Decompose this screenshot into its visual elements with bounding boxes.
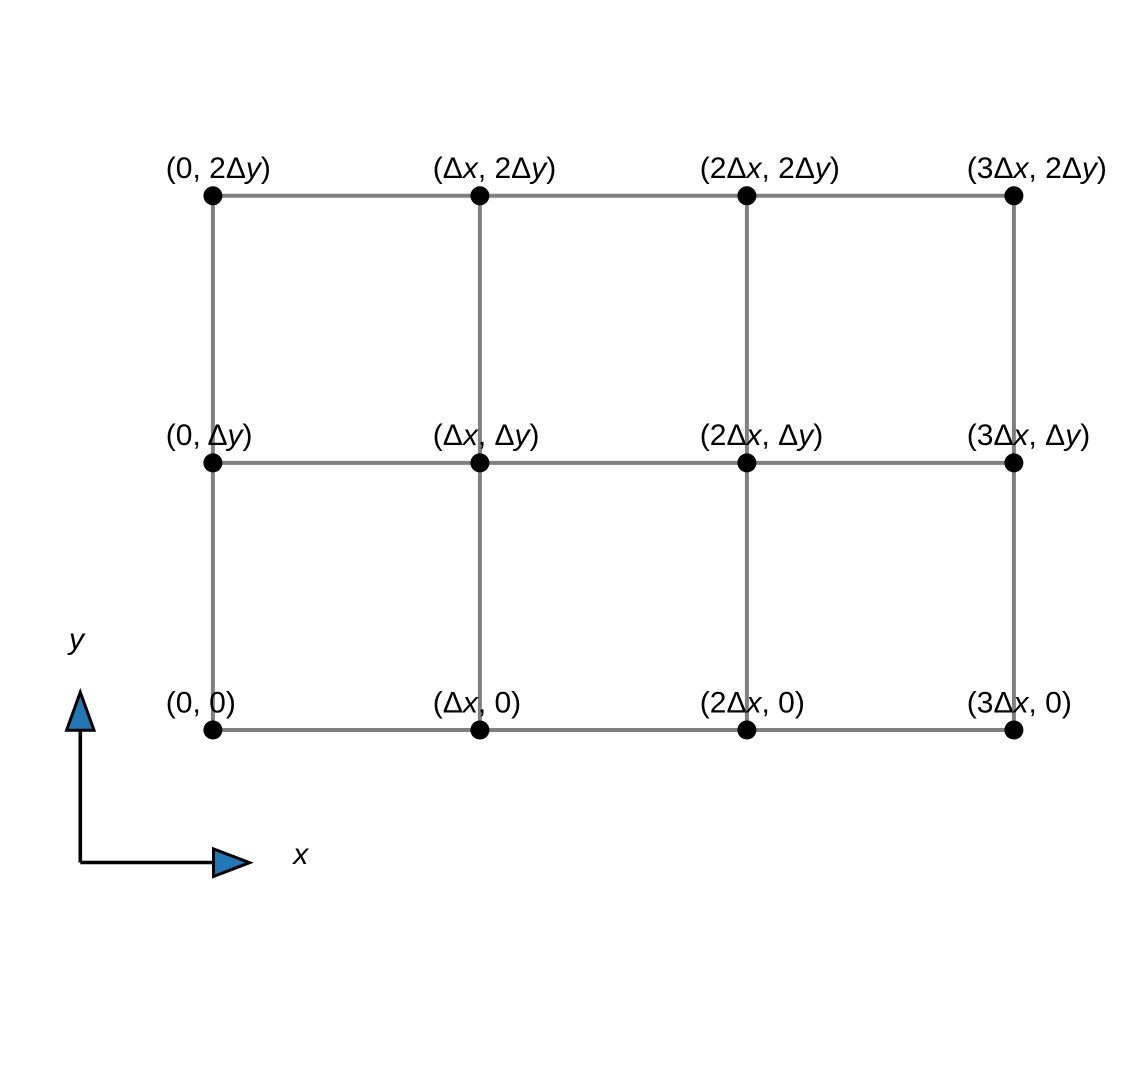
svg-text:(0, 2Δy): (0, 2Δy) xyxy=(166,152,271,185)
svg-text:x: x xyxy=(291,838,309,871)
svg-text:(Δx, 0): (Δx, 0) xyxy=(433,686,521,719)
svg-text:(Δx, 2Δy): (Δx, 2Δy) xyxy=(433,152,556,185)
svg-text:(3Δx, Δy): (3Δx, Δy) xyxy=(967,419,1090,452)
svg-text:(2Δx, 2Δy): (2Δx, 2Δy) xyxy=(700,152,840,185)
svg-text:(3Δx, 2Δy): (3Δx, 2Δy) xyxy=(967,152,1107,185)
svg-text:(Δx, Δy): (Δx, Δy) xyxy=(433,419,540,452)
svg-text:y: y xyxy=(67,623,86,656)
svg-text:(2Δx, Δy): (2Δx, Δy) xyxy=(700,419,823,452)
svg-text:(3Δx, 0): (3Δx, 0) xyxy=(967,686,1072,719)
svg-text:(2Δx, 0): (2Δx, 0) xyxy=(700,686,805,719)
svg-text:(0, 0): (0, 0) xyxy=(166,686,236,719)
svg-text:(0, Δy): (0, Δy) xyxy=(166,419,253,452)
